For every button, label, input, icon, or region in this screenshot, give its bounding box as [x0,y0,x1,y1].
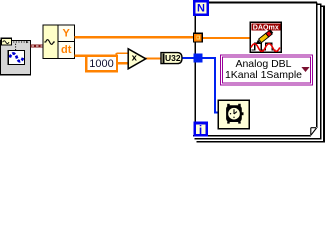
svg-text:i: i [199,123,202,137]
svg-text:Y: Y [63,28,71,40]
svg-text:DAQmx: DAQmx [253,23,280,32]
svg-text:U32: U32 [165,53,181,63]
svg-text:N: N [197,2,205,14]
svg-text:1000: 1000 [89,58,113,70]
svg-text:x: x [132,53,138,64]
svg-text:dt: dt [61,44,72,56]
svg-text:1Kanal 1Sample: 1Kanal 1Sample [225,69,302,81]
svg-text:Analog DBL: Analog DBL [235,58,291,70]
